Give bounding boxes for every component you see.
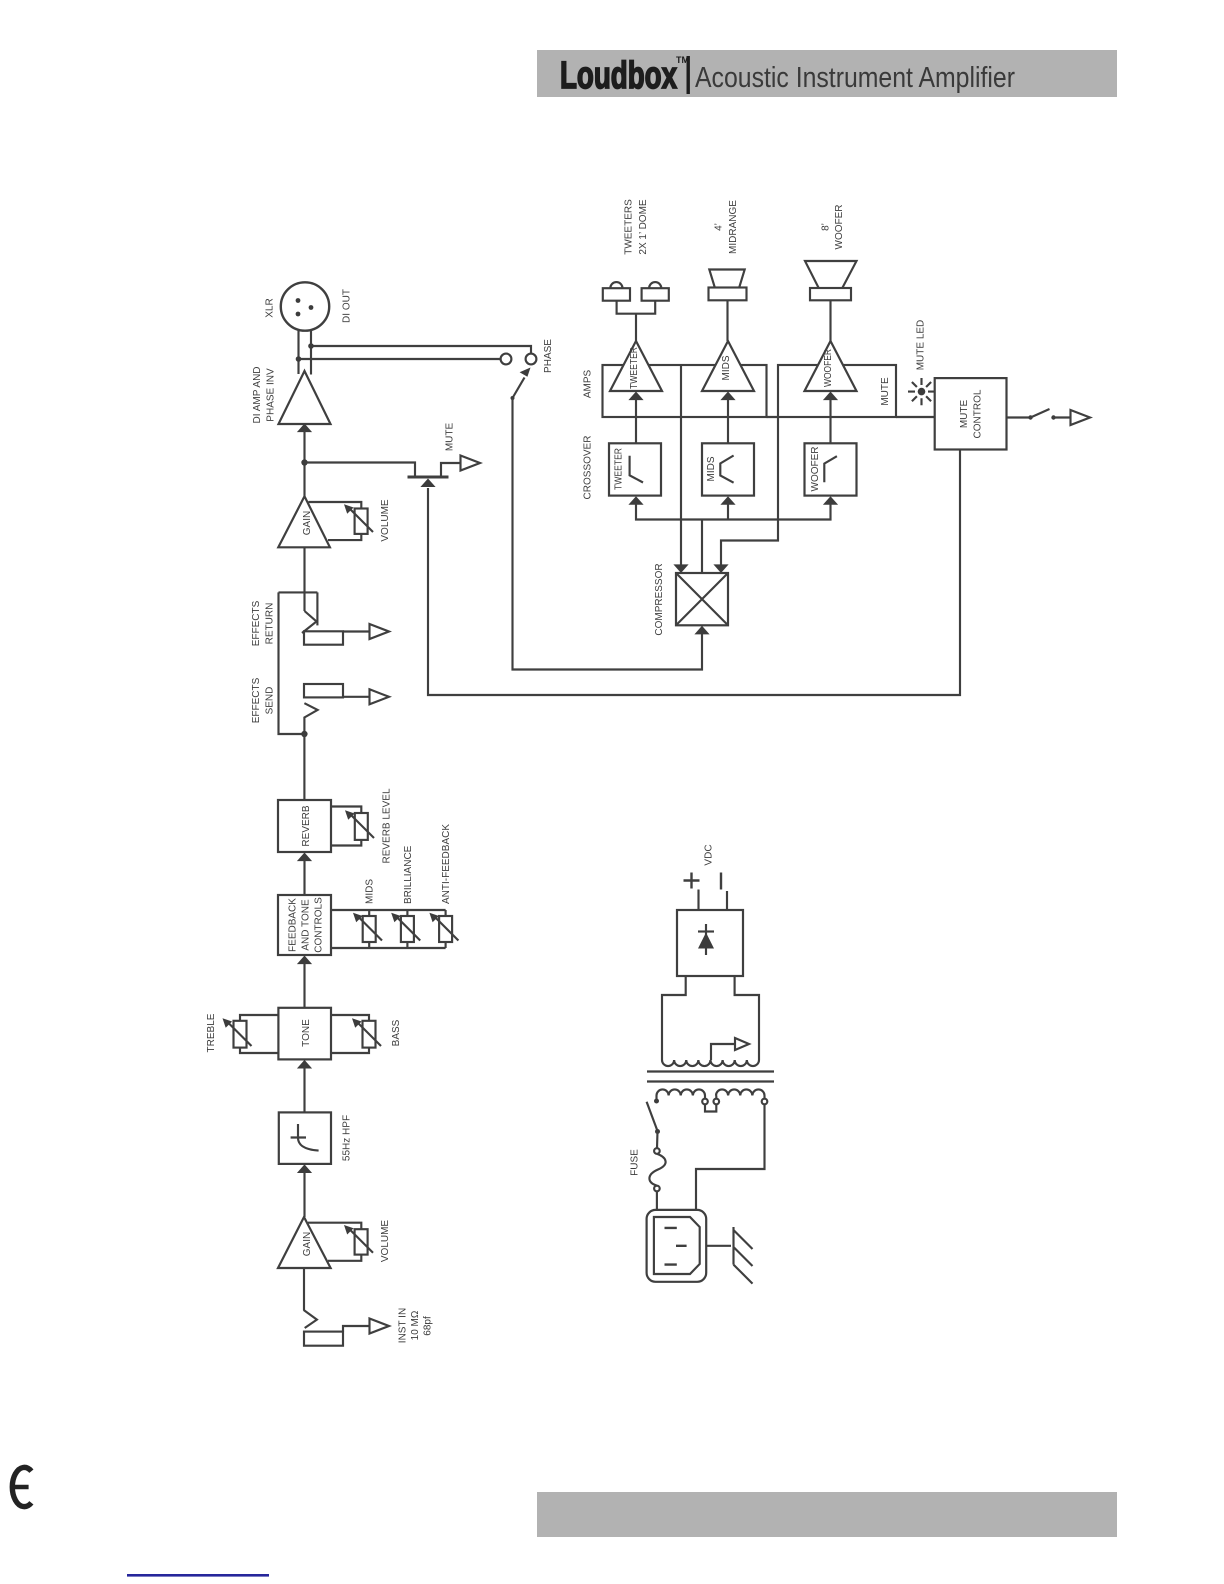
svg-text:REVERB LEVEL: REVERB LEVEL	[382, 788, 393, 863]
potentiometer VOLUME 2	[308, 1223, 373, 1261]
block FEEDBACK AND TONE CONTROLS	[278, 895, 331, 955]
wire rectifier to secondary	[662, 976, 759, 1060]
svg-text:PHASE INV: PHASE INV	[266, 368, 277, 422]
svg-text:PHASE: PHASE	[543, 339, 554, 373]
jack INST IN	[304, 1310, 370, 1346]
arrow column C into compressor	[713, 564, 728, 573]
block rectifier	[677, 910, 743, 976]
op-amp MIDS	[702, 341, 754, 391]
block REVERB	[278, 800, 331, 852]
op-amp TWEETER	[610, 341, 662, 391]
svg-text:MUTE: MUTE	[880, 377, 891, 406]
svg-text:DI AMP AND: DI AMP AND	[252, 366, 263, 423]
speaker tweeter right	[642, 282, 669, 301]
svg-text:FEEDBACK: FEEDBACK	[288, 898, 299, 952]
arrow into compressor bottom	[694, 626, 709, 635]
speaker tweeter left	[603, 282, 630, 301]
phase switch lever	[511, 368, 531, 401]
svg-text:TWEETER: TWEETER	[614, 448, 625, 490]
svg-text:CROSSOVER: CROSSOVER	[583, 436, 594, 500]
arrow column A into compressor	[673, 564, 688, 573]
svg-text:2X 1’ DOME: 2X 1’ DOME	[638, 199, 649, 255]
wire band bottom joins	[767, 416, 935, 418]
arrow into reverb	[297, 853, 312, 862]
svg-text:TWEETERS: TWEETERS	[624, 199, 635, 255]
op-amp GAIN 2	[278, 1217, 331, 1268]
wire to phase switch cold	[299, 358, 501, 360]
node junction	[296, 356, 302, 362]
label FEEDBACK AND TONE CONTROLS	[288, 897, 325, 953]
block TONE	[278, 1008, 331, 1060]
label EFFECTS SEND	[251, 677, 276, 723]
svg-text:VDC: VDC	[704, 844, 715, 865]
svg-text:AMPS: AMPS	[583, 370, 594, 399]
svg-text:10 MΩ: 10 MΩ	[410, 1310, 421, 1340]
svg-text:CONTROL: CONTROL	[973, 389, 984, 438]
svg-text:FUSE: FUSE	[630, 1149, 641, 1176]
header bar	[537, 50, 1117, 97]
svg-text:XLR: XLR	[265, 298, 276, 317]
transformer core	[647, 1072, 774, 1082]
svg-text:SEND: SEND	[265, 687, 276, 715]
arrow into tweeter crossover	[628, 496, 643, 505]
wire woofer crossover to amp	[829, 399, 831, 444]
switch mute control output	[1007, 409, 1071, 420]
node junction	[308, 343, 314, 349]
node effects rejoin	[301, 731, 307, 737]
arrow into woofer crossover	[823, 496, 838, 505]
inductor transformer primary right	[716, 1089, 765, 1095]
svg-text:EFFECTS: EFFECTS	[251, 600, 262, 646]
svg-text:COMPRESSOR: COMPRESSOR	[654, 563, 665, 635]
inductor transformer primary left	[657, 1089, 706, 1095]
hpf response icon	[291, 1124, 319, 1151]
XLR connector DI OUT	[281, 282, 329, 330]
wire phase to compressor sidechain	[513, 398, 703, 670]
block amps band left	[603, 365, 767, 417]
wire feedback to reverb	[303, 860, 305, 896]
mute output open arrow	[461, 456, 481, 471]
CE mark fragment	[12, 1467, 31, 1506]
phase switch contacts	[501, 354, 537, 365]
wire midrange to amp	[726, 300, 728, 341]
fuse F1	[649, 1148, 665, 1191]
switch power	[647, 1102, 660, 1134]
svg-text:MIDS: MIDS	[721, 355, 732, 380]
op-amp DI AMP AND PHASE INV	[279, 371, 331, 424]
wire main chain node	[303, 431, 305, 497]
wire gain1 down to effects tee	[303, 547, 305, 611]
svg-text:MIDS: MIDS	[706, 456, 717, 481]
block COMPRESSOR	[676, 573, 728, 625]
wire inlet to chassis ground	[706, 1245, 731, 1247]
wire woofer to amp	[829, 300, 831, 341]
svg-text:8’: 8’	[821, 223, 832, 231]
label 8" WOOFER	[821, 205, 846, 250]
wire bus column A to compressor	[680, 417, 682, 565]
node primary left terminal	[654, 1096, 659, 1104]
label TWEETERS 2X 1" DOME	[624, 199, 650, 255]
svg-text:GAIN: GAIN	[302, 1232, 313, 1256]
potentiometer TREBLE	[223, 1015, 279, 1053]
primary right terminal	[762, 1096, 768, 1105]
svg-text:Acoustic Instrument Amplifier: Acoustic Instrument Amplifier	[695, 62, 1015, 94]
wire VDC leads	[699, 890, 728, 911]
arrow into tweeter amp	[628, 392, 643, 401]
secondary tap open arrow	[735, 1038, 749, 1050]
wire tweeter pair join	[617, 301, 656, 341]
inlet pins	[665, 1228, 687, 1265]
svg-text:MUTE LED: MUTE LED	[916, 320, 927, 371]
svg-text:TREBLE: TREBLE	[206, 1013, 217, 1052]
svg-text:VOLUME: VOLUME	[380, 1220, 391, 1263]
wire tweeter crossover to amp	[635, 399, 637, 444]
node main junction	[301, 459, 307, 465]
svg-text:INST IN: INST IN	[398, 1308, 409, 1343]
mute control open arrow	[1071, 410, 1091, 425]
wire switch to fuse	[656, 1132, 659, 1149]
svg-text:EFFECTS: EFFECTS	[251, 677, 262, 723]
divider amps cells	[680, 365, 682, 417]
block crossover MIDS	[702, 443, 754, 495]
arrow into tone	[297, 1060, 312, 1069]
wire gain2 to hpf	[303, 1171, 305, 1217]
wire secondary tap	[711, 1044, 735, 1060]
svg-text:VOLUME: VOLUME	[380, 499, 391, 542]
label 4" MIDRANGE	[714, 200, 740, 254]
wire mids crossover to amp	[727, 399, 729, 444]
diode D1	[698, 924, 714, 955]
label MUTE CONTROL	[959, 389, 984, 438]
op-amp WOOFER	[805, 341, 857, 391]
svg-text:ANTI-FEEDBACK: ANTI-FEEDBACK	[441, 824, 452, 904]
svg-text:MIDS: MIDS	[365, 879, 376, 904]
block amps band right	[778, 365, 896, 417]
potentiometer ANTI-FEEDBACK	[429, 910, 458, 948]
speaker woofer	[805, 261, 857, 300]
arrow into hpf	[297, 1164, 312, 1173]
svg-text:68pf: 68pf	[423, 1316, 434, 1336]
transistor mute FET	[408, 463, 460, 487]
svg-text:WOOFER: WOOFER	[810, 447, 821, 492]
jack EFFECTS SEND	[304, 684, 370, 734]
svg-text:MUTE: MUTE	[959, 400, 970, 429]
potentiometer BASS	[331, 1015, 381, 1053]
wire effects bypass tee	[279, 592, 318, 734]
svg-text:RETURN: RETURN	[265, 603, 276, 645]
primary taps voltage select	[702, 1096, 719, 1112]
arrow into mids crossover	[720, 496, 735, 505]
svg-text:WOOFER: WOOFER	[834, 205, 845, 250]
wire twin leads from XLR	[299, 330, 312, 375]
svg-text:TONE: TONE	[301, 1019, 312, 1047]
svg-text:BRILLIANCE: BRILLIANCE	[403, 845, 414, 904]
svg-text:CONTROLS: CONTROLS	[314, 897, 325, 953]
block MUTE CONTROL	[935, 378, 1007, 449]
svg-text:AND TONE: AND TONE	[301, 899, 312, 951]
jack EFFECTS RETURN	[302, 592, 370, 644]
wire gain2 input	[303, 1268, 305, 1310]
effects send open arrow	[370, 689, 390, 704]
wire to phase switch hot	[311, 346, 531, 354]
wire mute FET to mute control	[428, 450, 960, 696]
svg-text:Loudbox: Loudbox	[560, 55, 677, 97]
arrow into DI amp	[297, 424, 312, 433]
svg-text:WOOFER: WOOFER	[823, 349, 834, 387]
label EFFECTS RETURN	[251, 600, 276, 646]
svg-text:TWEETER: TWEETER	[629, 347, 640, 389]
svg-text:MIDRANGE: MIDRANGE	[728, 200, 739, 254]
wire column C woofer feed to compressor	[721, 417, 778, 565]
block crossover WOOFER	[805, 443, 857, 495]
inductor transformer secondary	[662, 1060, 759, 1066]
wire crossover input bus	[636, 504, 831, 520]
label INST IN 10 Mohm 68pf	[398, 1308, 434, 1343]
label DI AMP AND PHASE INV	[252, 366, 277, 423]
svg-text:55Hz HPF: 55Hz HPF	[342, 1115, 353, 1161]
block crossover TWEETER	[609, 443, 661, 495]
plus terminal	[684, 873, 700, 889]
navy rule at page bottom	[127, 1574, 269, 1577]
svg-text:MUTE: MUTE	[445, 423, 456, 452]
wire hpf to tone	[303, 1067, 305, 1113]
block 55Hz HPF	[279, 1112, 331, 1164]
potentiometer VOLUME 1	[308, 502, 373, 540]
wire neutral to inlet	[696, 1104, 765, 1210]
potentiometer REVERB LEVEL	[331, 807, 374, 846]
arrow into mids amp	[720, 392, 735, 401]
wire tone-control rails	[331, 910, 446, 948]
svg-text:REVERB: REVERB	[301, 805, 312, 846]
arrow into feedback block	[297, 956, 312, 965]
wire fuse to inlet	[656, 1191, 658, 1210]
svg-text:BASS: BASS	[391, 1019, 402, 1046]
connector AC inlet	[647, 1210, 707, 1282]
inst in open arrow	[370, 1319, 390, 1334]
wire to reverb	[303, 734, 305, 800]
wire junction to mute FET	[305, 463, 416, 477]
footer bar	[537, 1492, 1117, 1537]
wire bus column B to compressor	[701, 520, 703, 574]
arrow into woofer amp	[823, 392, 838, 401]
ground chassis	[734, 1227, 753, 1284]
svg-text:4’: 4’	[714, 223, 725, 231]
svg-text:DI OUT: DI OUT	[342, 289, 353, 323]
wire tone to feedback	[303, 963, 305, 1008]
effects return open arrow	[370, 624, 390, 639]
speaker midrange	[709, 270, 747, 301]
svg-text:GAIN: GAIN	[302, 511, 313, 535]
minus terminal	[720, 873, 722, 890]
potentiometer MIDS	[353, 910, 382, 948]
potentiometer BRILLIANCE	[391, 910, 420, 948]
LED mute indicator	[908, 378, 935, 405]
op-amp GAIN 1	[278, 496, 330, 547]
